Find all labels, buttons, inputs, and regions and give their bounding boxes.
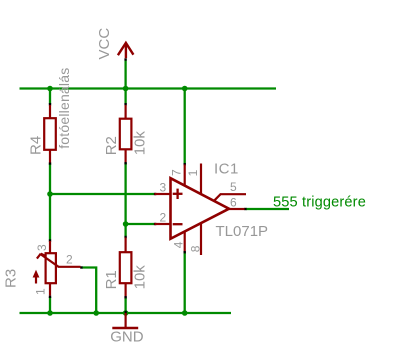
pin end tick VCC bbox=[124, 58, 126, 60]
svg-text:10k: 10k bbox=[132, 131, 149, 156]
R3 wiper arrowhead bbox=[37, 254, 46, 259]
junction bus-opamp bbox=[182, 86, 188, 92]
wire node B to pin2 bbox=[126, 223, 154, 225]
svg-text:2: 2 bbox=[66, 252, 73, 266]
pin end tick R3 top bbox=[49, 239, 51, 241]
wire wiper to riser bbox=[82, 268, 96, 314]
VCC supply symbol bbox=[118, 43, 133, 58]
svg-text:6: 6 bbox=[230, 195, 237, 209]
junction bus-R4 bbox=[47, 86, 53, 92]
pin end tick R4 top bbox=[49, 103, 51, 105]
junction node B pin2 bbox=[123, 221, 129, 227]
junction bus-VCC bbox=[123, 86, 129, 92]
wire bus to R2 bbox=[124, 89, 126, 104]
svg-text:5: 5 bbox=[230, 180, 237, 194]
pin end tick opamp pin7 bbox=[184, 163, 186, 165]
pin end tick pin2 bbox=[154, 223, 156, 225]
resistor R4 bbox=[44, 105, 56, 163]
pin end tick pin3 bbox=[154, 193, 156, 195]
svg-text:R2: R2 bbox=[103, 136, 120, 155]
wire R3 to bottom bus bbox=[49, 297, 51, 313]
svg-text:GND: GND bbox=[110, 328, 144, 345]
svg-text:R4: R4 bbox=[27, 136, 44, 155]
junction bottom opamp bbox=[182, 310, 188, 316]
wire R2 to R1 (node B) bbox=[124, 163, 126, 236]
pin end tick pin6 bbox=[244, 208, 246, 210]
svg-text:TL071P: TL071P bbox=[216, 223, 269, 240]
junction node A pin3 bbox=[47, 191, 53, 197]
svg-text:3: 3 bbox=[35, 244, 49, 251]
pin end tick wiper bbox=[80, 266, 82, 268]
pin end tick R4 bottom bbox=[49, 162, 51, 164]
wire top supply bus bbox=[20, 87, 277, 89]
op-amp IC1 pins bbox=[155, 164, 247, 256]
pin end tick opamp pin4 bbox=[184, 251, 186, 253]
op-amp minus mark bbox=[173, 223, 183, 225]
pin end tick R1 top bbox=[124, 236, 126, 238]
wire bus to opamp V+ bbox=[184, 89, 186, 164]
wire R1 to bottom bus bbox=[124, 298, 126, 314]
trimmer R3 bbox=[36, 241, 81, 296]
ground symbol bbox=[112, 313, 138, 328]
svg-text:1: 1 bbox=[33, 288, 47, 295]
wire VCC stem to bus bbox=[124, 61, 126, 89]
wire bottom ground bus bbox=[20, 312, 232, 314]
svg-text:4: 4 bbox=[171, 241, 185, 248]
svg-text:fotóellenálás: fotóellenálás bbox=[56, 68, 72, 149]
pin end tick GND bbox=[125, 311, 127, 316]
wire output net bbox=[246, 208, 289, 210]
pin end tick R1 bottom bbox=[124, 296, 126, 298]
svg-text:1: 1 bbox=[186, 169, 200, 176]
R3 adjust arrowhead bbox=[33, 270, 40, 278]
pin end tick R3 bottom bbox=[49, 296, 51, 298]
svg-text:10k: 10k bbox=[132, 265, 149, 290]
wire node A to pin3 bbox=[50, 193, 154, 195]
svg-text:8: 8 bbox=[189, 245, 203, 252]
svg-text:555 triggerére: 555 triggerére bbox=[273, 195, 366, 211]
junction bottom R3 bbox=[47, 310, 53, 316]
op-amp U1 triangle bbox=[171, 178, 230, 239]
svg-text:7: 7 bbox=[170, 169, 184, 176]
wire R4 to R3 (node A) bbox=[49, 164, 51, 240]
svg-text:R1: R1 bbox=[103, 270, 120, 289]
svg-text:VCC: VCC bbox=[96, 28, 113, 60]
pin end tick R2 bottom bbox=[124, 162, 126, 164]
wire opamp V- to bottom bus bbox=[184, 253, 186, 314]
wire bus to R4 bbox=[49, 89, 51, 104]
svg-text:2: 2 bbox=[160, 211, 167, 225]
junction bottom wiper bbox=[93, 310, 99, 316]
svg-text:3: 3 bbox=[160, 181, 167, 195]
resistor R1 bbox=[120, 238, 132, 297]
svg-text:R3: R3 bbox=[2, 269, 19, 288]
op-amp plus mark bbox=[173, 189, 183, 199]
pin end tick R2 top bbox=[124, 103, 126, 105]
resistor R2 bbox=[120, 105, 132, 162]
junction bottom R1/GND bbox=[123, 310, 129, 316]
svg-text:IC1: IC1 bbox=[214, 161, 239, 178]
